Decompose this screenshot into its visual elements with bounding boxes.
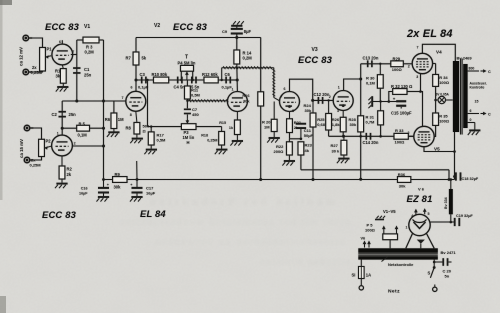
resistor R35 100 [433, 113, 439, 125]
junction dot R5 left [61, 127, 64, 130]
junction dot C4 leg [180, 79, 182, 81]
wire jack4 to P2 [30, 157, 41, 161]
svg-text:0,5M: 0,5M [191, 93, 201, 98]
svg-text:30k: 30k [399, 183, 406, 188]
svg-text:5n: 5n [445, 273, 450, 278]
svg-text:V1: V1 [84, 24, 90, 30]
winding marker under V6 [417, 240, 425, 244]
wire C9 to rail [236, 35, 238, 51]
coupling line y=101 to V2a grid [62, 100, 126, 102]
cathode resistor R8 500 [136, 111, 137, 122]
cathode resistor R15 1k [236, 112, 238, 120]
svg-text:C4 5n: C4 5n [174, 84, 186, 89]
svg-text:V6: V6 [361, 236, 366, 240]
ground under R2 [61, 179, 63, 183]
ground bus y=101.5 [373, 101, 397, 103]
grid-stopper R33 100 [394, 133, 408, 139]
tube V1b (ECC83 triode) [52, 135, 73, 156]
resistor R10 80k [154, 77, 169, 83]
resistor R17 0,5M [150, 127, 152, 132]
wire R16 to supply line B [260, 106, 262, 180]
ground under C16 [103, 193, 105, 196]
svg-text:0,5M: 0,5M [157, 138, 167, 143]
svg-text:5: 5 [428, 212, 430, 216]
wire P2 wiper to V1b grid [44, 146, 51, 148]
svg-text:8: 8 [292, 109, 294, 113]
svg-text:8µF: 8µF [244, 29, 252, 34]
junction dot plate/C3 [135, 79, 138, 82]
treble pot P4 5M lin [181, 65, 194, 71]
svg-text:P4 5M lin: P4 5M lin [178, 61, 196, 66]
wire R24 to line B [312, 127, 314, 180]
capacitor C4 5n [177, 77, 179, 84]
svg-text:C1: C1 [84, 67, 90, 72]
wire R32 right [407, 91, 421, 93]
junction dot R32/ground bus [388, 100, 391, 103]
svg-text:C12 20n: C12 20n [314, 92, 330, 97]
mains terminal right [433, 287, 437, 291]
svg-text:100Ω: 100Ω [439, 119, 450, 124]
terminal arrow C (6) [481, 113, 486, 115]
svg-text:T: T [185, 55, 188, 61]
junction dot V3b plate/R28 [359, 78, 362, 81]
svg-text:4k: 4k [305, 148, 310, 153]
svg-text:1: 1 [232, 88, 234, 92]
svg-text:V2: V2 [154, 23, 160, 29]
svg-text:0,2M: 0,2M [85, 49, 95, 54]
svg-text:ca 12 mV: ca 12 mV [19, 47, 24, 66]
capacitor C9 8uF [236, 26, 238, 29]
svg-text:1A: 1A [366, 273, 371, 278]
svg-text:R 33: R 33 [395, 128, 404, 133]
svg-text:0,7M: 0,7M [366, 120, 376, 125]
junction dot C20 branch [433, 261, 436, 264]
svg-text:25n: 25n [84, 72, 92, 77]
resistor R22 200 [288, 139, 290, 142]
svg-text:6: 6 [59, 40, 61, 44]
junction node B+ dots [448, 178, 451, 181]
svg-text:1: 1 [338, 86, 340, 90]
cathode resistor R26 1,8k [342, 104, 345, 107]
resistor R25 0,68 [328, 100, 330, 113]
resistor R3 0,2M [83, 37, 99, 43]
mains terminal left [360, 279, 362, 286]
svg-text:ECC 83: ECC 83 [298, 54, 333, 65]
cathode bus to V5 [421, 92, 423, 127]
junction dot R24/lineB [312, 178, 315, 181]
svg-text:R36: R36 [398, 172, 406, 177]
svg-text:R29: R29 [393, 56, 401, 61]
svg-text:6V 0,05A: 6V 0,05A [436, 92, 450, 96]
V3a plate wire [290, 79, 313, 100]
svg-text:R18: R18 [201, 134, 208, 138]
tube V1a (ECC83 triode) [52, 44, 73, 65]
mains switch S [433, 266, 436, 269]
capacitor C11 50uF [300, 128, 302, 139]
potentiometer P2 [39, 139, 45, 156]
svg-text:P2: P2 [46, 139, 52, 144]
bass line y=126.6 [148, 126, 182, 128]
screen column x=435.6 [435, 64, 437, 75]
svg-text:30k: 30k [305, 108, 312, 113]
svg-text:P1: P1 [47, 47, 53, 52]
junction dot R17 top [150, 125, 152, 127]
wire R28 to line B [360, 132, 362, 179]
wire lineA corner to node [448, 170, 450, 180]
resistor R30 0,1M [379, 64, 381, 75]
svg-text:Bv 2471: Bv 2471 [441, 250, 457, 255]
cathode node wire [290, 138, 301, 140]
capacitor C5 5n [191, 77, 193, 84]
svg-text:50µF: 50µF [304, 133, 314, 138]
svg-text:0,2M: 0,2M [243, 56, 253, 61]
svg-text:6: 6 [131, 85, 133, 89]
svg-text:V4: V4 [436, 50, 442, 55]
feedback resistor R5 0,1M [77, 125, 90, 131]
filter resistor R9 30k [113, 177, 127, 183]
ground under C17 [136, 193, 138, 196]
svg-text:V3: V3 [312, 47, 318, 53]
svg-text:Kontrolle: Kontrolle [470, 86, 485, 90]
capacitor C14 20n [366, 133, 368, 140]
electrolytic C18 32uF [455, 172, 457, 180]
svg-text:16µF: 16µF [79, 192, 88, 196]
ground under R18 [221, 145, 223, 149]
wire riser C3/R10 node to bass line [147, 80, 149, 127]
svg-text:C3: C3 [140, 72, 146, 77]
junction dot R32/cathodes [419, 90, 422, 93]
svg-text:Bv 2469: Bv 2469 [457, 56, 473, 61]
svg-text:5k: 5k [142, 55, 147, 60]
svg-text:Si: Si [352, 273, 356, 278]
junction dot R16/lineB [259, 178, 262, 181]
svg-text:EL 84: EL 84 [140, 208, 166, 219]
svg-text:R9: R9 [115, 172, 121, 177]
svg-text:nednewrev uz nerhöreztisebrets: nednewrev uz nerhöreztisebretsre [155, 237, 346, 248]
svg-text:3: 3 [416, 75, 418, 79]
input jack Bu3 (ca 15 mV) [24, 125, 31, 132]
cathode resistor R2 2k [61, 156, 63, 166]
V6 heater pin 4 [415, 210, 417, 215]
svg-text:Netz: Netz [388, 289, 400, 295]
wire rail end down to R16 [260, 38, 262, 92]
svg-text:R 32 130 Ω: R 32 130 Ω [391, 84, 413, 89]
svg-text:4: 4 [411, 214, 413, 218]
svg-text:EZ 81: EZ 81 [407, 193, 433, 204]
ground under R27 [343, 155, 345, 158]
svg-text:0,25M: 0,25M [31, 70, 43, 75]
junction dot riser/line [102, 100, 105, 103]
wire R23 to line A [300, 155, 302, 170]
svg-text:30 k: 30 k [332, 149, 341, 154]
svg-text:0: 0 [470, 118, 472, 122]
junction dot lamp node [434, 99, 437, 102]
ground under R15 [236, 135, 238, 141]
svg-text:2: 2 [74, 142, 76, 146]
wire lamp to transformer [446, 99, 453, 101]
ground under R20 [273, 132, 275, 138]
svg-text:0,1M: 0,1M [366, 81, 376, 86]
wire R7 to V2a plate [135, 65, 137, 91]
svg-text:V 6: V 6 [418, 187, 425, 192]
tube V5 (EL84) [414, 126, 434, 146]
electrolytic C19 32uF [454, 218, 456, 226]
svg-text:100Ω: 100Ω [365, 228, 376, 233]
ground under R1 [62, 83, 64, 86]
wire V1a plate to R3 column [71, 54, 77, 56]
svg-text:C9: C9 [222, 29, 228, 34]
svg-text:R15: R15 [219, 121, 226, 125]
wire jack3 to P2 [30, 128, 41, 139]
svg-text:R 5: R 5 [79, 121, 86, 126]
svg-text:6: 6 [284, 87, 286, 91]
wire R25 to splitter line [328, 130, 330, 136]
svg-text:R7: R7 [126, 55, 132, 60]
filter choke Bv334 [449, 189, 453, 214]
svg-text:2x EL 84: 2x EL 84 [406, 28, 453, 40]
svg-text:16µF: 16µF [146, 191, 156, 196]
ground under R6 [113, 129, 115, 132]
resistor R7 5k [135, 38, 137, 53]
junction dot R31 top [379, 100, 381, 102]
ground under R8 [136, 134, 138, 138]
junction dot shield riser [221, 79, 223, 81]
output transformer core [460, 59, 462, 135]
svg-text:C2: C2 [52, 112, 58, 117]
junction dot R28/splitter line [359, 135, 362, 138]
capacitor C13 20n [367, 60, 369, 67]
resistor R27 30k [343, 136, 345, 140]
svg-text:30k: 30k [243, 98, 250, 103]
wire R11 to C7 [186, 99, 188, 108]
svg-text:25n: 25n [69, 112, 77, 117]
fuse Si 1A [359, 267, 365, 279]
splitter output line y=136.3 [329, 135, 414, 137]
svg-text:0,25M: 0,25M [30, 162, 42, 167]
V4 plate wire to output transformer [422, 44, 455, 61]
wire C6 to V2b plate column [232, 79, 238, 81]
wire R34 to lamp node [435, 86, 437, 113]
svg-text:30k: 30k [350, 122, 357, 127]
supply line B y=179.5 [104, 179, 455, 181]
tube V6 (EZ81) [409, 214, 430, 235]
junction dot R28/lineB [359, 178, 362, 181]
side ground symbol [371, 96, 373, 107]
svg-text:V1–V5: V1–V5 [383, 209, 396, 214]
resistor R14 0,2M [234, 50, 240, 64]
plate-load resistor R28 30k [360, 64, 362, 116]
svg-text:7: 7 [281, 94, 283, 98]
svg-text:7: 7 [122, 96, 124, 100]
svg-text:R16: R16 [242, 93, 250, 98]
svg-text:R23: R23 [305, 143, 313, 148]
wire choke top to node [450, 180, 452, 190]
wire shield end to V3a grid [274, 98, 280, 101]
tone line y=80 [136, 79, 237, 81]
cathode resistor R32 130 [393, 89, 407, 95]
svg-text:6: 6 [470, 109, 472, 113]
svg-text:C16: C16 [81, 187, 88, 191]
V4 screen stub [433, 63, 436, 65]
decoupling resistor R36 30k [398, 177, 411, 183]
resistor R24 30k [312, 100, 314, 113]
wire R29 to V4 grid [403, 63, 412, 65]
hum pot P5 100 [383, 234, 398, 240]
svg-text:ECC 83: ECC 83 [42, 209, 77, 220]
wire R3 left [77, 39, 83, 41]
svg-text:100Ω: 100Ω [439, 80, 450, 85]
mains transformer primary winding [358, 248, 438, 253]
svg-text:R2: R2 [67, 167, 73, 172]
svg-text:7: 7 [72, 50, 74, 54]
capacitor C20 5n [434, 261, 443, 263]
svg-text:+: + [393, 97, 396, 102]
svg-text:200Ω: 200Ω [274, 149, 285, 154]
supply line A y=169.8 [301, 169, 449, 171]
svg-text:netsield nehcilts: netsield nehcilts [260, 257, 350, 268]
svg-text:C: C [488, 70, 491, 74]
svg-text:0,1M: 0,1M [78, 133, 88, 138]
svg-text:2: 2 [408, 65, 410, 69]
capacitor C3 0,1uF [141, 77, 143, 84]
wire C7 to P3 wiper [186, 115, 188, 119]
input jack Bu2 [22, 69, 29, 76]
wire R26 to splitter line [342, 132, 344, 137]
wire R21 bottom [289, 133, 291, 139]
tube V2b (ECC83 triode) [227, 92, 247, 112]
resistor R18 0,25M [221, 127, 223, 132]
V5 plate wire [424, 147, 455, 152]
grid-leak resistor R6 1M [113, 101, 115, 113]
junction dot R5 right [102, 127, 105, 130]
input jack Bu4 [24, 157, 31, 164]
shielded wire riser from tone line [221, 68, 223, 80]
indicator lamp 6V [438, 96, 445, 103]
riser to C17 node [136, 161, 138, 180]
svg-text:2k: 2k [67, 172, 72, 177]
tube V3a (ECC83 triode) [280, 92, 300, 112]
mains transformer secondary winding [358, 256, 438, 259]
junction dot C9/rail [235, 36, 238, 39]
wire R32 left to ground bus [389, 92, 393, 102]
svg-text:C: C [488, 113, 491, 117]
svg-text:ECC 83: ECC 83 [45, 21, 80, 32]
capacitor C7 450 [184, 109, 191, 111]
Netzkontrolle pointer [382, 257, 388, 262]
svg-text:15: 15 [475, 99, 479, 103]
potentiometer P1 [40, 48, 46, 72]
P5 wiper to transformer [389, 240, 391, 249]
tube V2a (ECC83 triode) [126, 91, 146, 111]
svg-text:S: S [428, 271, 431, 276]
grid-leak resistor R20 1M [273, 102, 275, 120]
pin 6 V1a [61, 40, 63, 44]
B+ feed column x=454.5 [454, 132, 456, 180]
wire jack2 to P1 bottom [29, 71, 42, 72]
P5 heater arrows V1-V5 [383, 227, 385, 234]
junction dot R31/splitter line [379, 135, 382, 138]
filter capacitor C16 16uF [103, 180, 105, 188]
junction dot plate/C12 node [311, 99, 314, 102]
svg-text:Netzkontrolle: Netzkontrolle [388, 262, 414, 267]
mains transformer core [358, 253, 438, 255]
V6 to transformer skirt [406, 234, 413, 249]
wire R14 to V2b plate [236, 64, 239, 92]
svg-text:C6: C6 [225, 72, 231, 77]
svg-text:C13 20n: C13 20n [363, 55, 379, 60]
ground above C9 [231, 21, 244, 26]
svg-text:800: 800 [469, 66, 475, 70]
ground secondary [474, 123, 476, 130]
junction dot plate/riser [102, 145, 105, 148]
ground under R17 [150, 145, 152, 149]
resistor R12 60k [204, 77, 218, 83]
grid line to V3b [313, 99, 333, 101]
resistor R11 0,5M [186, 80, 188, 86]
wire P4 left leg [180, 71, 182, 80]
svg-text:Bv 334: Bv 334 [444, 197, 448, 209]
junction dot R30 top [379, 63, 381, 65]
svg-text:3: 3 [337, 109, 339, 113]
svg-text:1M: 1M [264, 125, 270, 130]
output transformer primary winding [453, 61, 459, 132]
capacitor C1 25n [73, 67, 80, 69]
junction dot H2 at C7 node [186, 100, 188, 102]
upper coupling line y=63.8 [361, 63, 391, 65]
svg-text:1,8k: 1,8k [332, 122, 341, 127]
svg-text:ECC 83: ECC 83 [173, 21, 208, 32]
svg-text:8: 8 [130, 113, 132, 117]
V4 cathode wire [420, 74, 422, 92]
wire jack1 to P1 top [29, 38, 42, 48]
output transformer secondary winding [463, 64, 467, 128]
resistor R23 4k [300, 138, 303, 141]
svg-text:C19 32µF: C19 32µF [456, 214, 473, 218]
terminal arrow C (800) [481, 70, 486, 72]
input jack Bu1 (top, ca 12 mV) [22, 35, 29, 42]
svg-text:H: H [187, 140, 190, 145]
svg-text:ca 15 mV: ca 15 mV [19, 139, 24, 158]
junction dot R25 top [327, 99, 329, 101]
mains left leg [360, 260, 362, 267]
svg-text:C15 100µF: C15 100µF [391, 111, 412, 116]
svg-text:1: 1 [57, 132, 59, 136]
junction dot tone/riser [146, 79, 148, 81]
secondary tap 800 Ohm [468, 70, 479, 72]
secondary tap 6 [468, 113, 479, 115]
resistor R31 0,7M [380, 102, 382, 111]
resistor R34 100 [433, 75, 439, 87]
tube V4 (EL84) [412, 53, 432, 73]
junction dot C5 leg [192, 79, 194, 81]
svg-text:1: 1 [406, 226, 408, 230]
grid-stopper R29 100 [391, 61, 404, 67]
svg-text:3k: 3k [56, 74, 61, 79]
bass pot P3 1M lin [181, 124, 196, 130]
B+ riser x=103.5 [103, 40, 105, 180]
junction dot C1/line [75, 100, 78, 103]
junction dot at plate column [236, 79, 239, 82]
svg-text:2: 2 [408, 131, 410, 135]
V6 heater pin 5 [424, 210, 426, 215]
svg-text:R27: R27 [331, 143, 339, 148]
svg-text:7: 7 [417, 45, 419, 49]
svg-text:V5: V5 [434, 147, 440, 152]
shielded cable H1 vertical drop [272, 68, 275, 98]
wire P1 wiper to V1a grid [45, 56, 51, 57]
B+ rail y=37.5 [136, 37, 261, 39]
junction dot R14/hatch [236, 67, 238, 69]
